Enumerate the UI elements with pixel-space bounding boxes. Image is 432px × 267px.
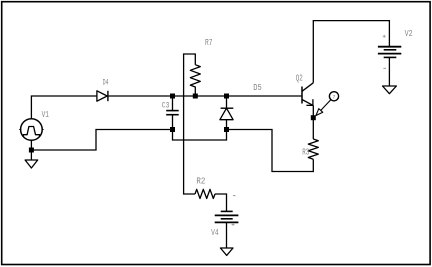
svg-text:C3: C3 — [162, 101, 170, 110]
source V1 — [19, 119, 43, 141]
wire D5 bottom to R3 bottom — [227, 130, 314, 172]
wire V1 bottom lead — [30, 140, 32, 160]
wire V1 top to diode D4 — [31, 96, 97, 119]
node D5 top junction — [224, 94, 229, 99]
probe arrow at emitter — [316, 92, 339, 116]
capacitor C3 — [166, 96, 179, 130]
node V1 bottom junction — [29, 148, 34, 153]
resistor R3 — [308, 139, 318, 159]
ground at V2 — [383, 86, 397, 94]
svg-text:7: 7 — [332, 94, 335, 101]
wire main rail D4 to Q2 base — [108, 95, 302, 97]
svg-text:Q2: Q2 — [296, 73, 303, 83]
svg-text:R3: R3 — [302, 147, 309, 157]
wire V2 to ground — [388, 57, 390, 86]
wire jog C3 bottom to D5 bottom — [173, 130, 227, 141]
wire emitter down — [312, 105, 314, 139]
wire R2 to V4 — [215, 194, 227, 211]
svg-text:D4: D4 — [103, 79, 109, 88]
svg-text:V4: V4 — [211, 228, 219, 238]
wire V4 to ground — [226, 222, 228, 248]
svg-text:R2: R2 — [196, 176, 205, 186]
node R7 bottom junction — [193, 94, 198, 99]
wire collector to V2 — [313, 21, 389, 83]
resistor R7 — [190, 65, 200, 96]
battery V4 — [215, 211, 239, 222]
svg-text:V1: V1 — [42, 110, 49, 120]
battery V2 — [378, 47, 401, 58]
plus sign V4 — [232, 223, 235, 226]
plus sign V2 — [383, 35, 386, 38]
node C3 bottom junction — [170, 127, 175, 132]
ground at V1 — [25, 160, 38, 168]
resistor R2 — [195, 189, 215, 198]
transistor Q2 — [302, 83, 313, 106]
node D5 bottom junction — [224, 127, 229, 132]
wire ground run to bottom rail — [31, 130, 172, 151]
wire long vertical R7 top to R2 — [184, 54, 196, 194]
minus sign V2 — [383, 67, 386, 69]
ground at V4 — [220, 248, 233, 255]
svg-text:R7: R7 — [205, 38, 213, 48]
minus sign V4 — [233, 195, 236, 197]
svg-text:V2: V2 — [405, 29, 413, 39]
node emitter junction — [311, 115, 316, 120]
diode D4 — [97, 91, 108, 101]
diode D5 — [220, 96, 233, 130]
node C3 top junction — [170, 94, 175, 99]
svg-text:D5: D5 — [253, 83, 261, 93]
